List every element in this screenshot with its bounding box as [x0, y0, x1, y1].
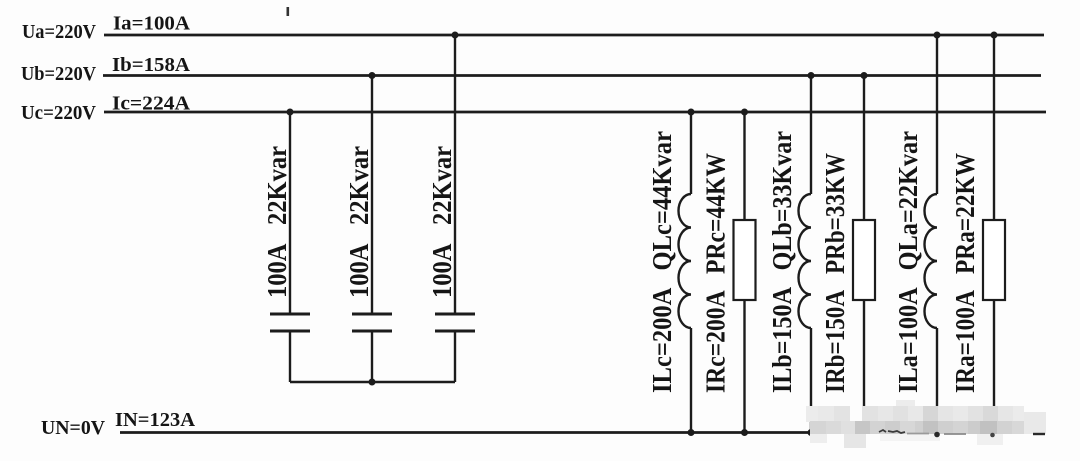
svg-text:ILc=200A QLc=44Kvar: ILc=200A QLc=44Kvar: [647, 131, 677, 393]
svg-text:Ia=100A: Ia=100A: [113, 13, 191, 35]
svg-text:ILb=150A QLb=33Kvar: ILb=150A QLb=33Kvar: [767, 131, 797, 393]
svg-text:100A 22Kvar: 100A 22Kvar: [427, 146, 457, 298]
svg-text:Ib=158A: Ib=158A: [112, 54, 191, 76]
svg-text:IN=123A: IN=123A: [115, 409, 196, 431]
svg-text:Ua=220V: Ua=220V: [22, 21, 97, 43]
svg-text:IRc=200A PRc=44KW: IRc=200A PRc=44KW: [701, 153, 731, 393]
svg-text:Uc=220V: Uc=220V: [21, 102, 97, 124]
svg-text:100A 22Kvar: 100A 22Kvar: [344, 146, 374, 298]
svg-text:Ic=224A: Ic=224A: [112, 93, 191, 115]
svg-text:UN=0V: UN=0V: [41, 417, 106, 439]
svg-text:ILa=100A QLa=22Kvar: ILa=100A QLa=22Kvar: [893, 131, 923, 393]
svg-text:100A 22Kvar: 100A 22Kvar: [262, 146, 292, 298]
svg-text:IRa=100A PRa=22KW: IRa=100A PRa=22KW: [950, 153, 980, 393]
svg-text:IRb=150A PRb=33KW: IRb=150A PRb=33KW: [820, 153, 850, 393]
svg-text:Ub=220V: Ub=220V: [21, 63, 97, 85]
